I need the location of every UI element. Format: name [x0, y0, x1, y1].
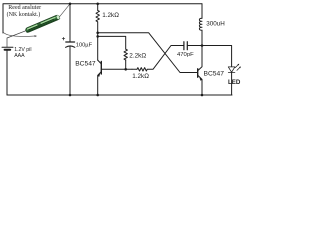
svg-text:470pF: 470pF — [177, 52, 194, 58]
wire top rail to R1 — [97, 4, 99, 10]
wire top rail — [70, 3, 202, 5]
arrowheads — [34, 35, 240, 81]
resistor R1 1.2k vertical — [96, 10, 99, 21]
transistor Q1 emitter — [98, 72, 102, 95]
wire C2 to node B — [188, 45, 202, 47]
junction dots — [69, 3, 204, 97]
wire leader arrow to reed switch — [3, 33, 36, 37]
capacitor C1 100uF — [66, 41, 75, 43]
labels — [14, 12, 241, 86]
wire A cross-couple to Q2 base — [98, 33, 198, 73]
leader arrowhead — [34, 35, 37, 37]
svg-text:100µF: 100µF — [76, 43, 93, 49]
wire R1 to Q1 collector — [97, 22, 99, 60]
wire C1 to bottom rail — [69, 46, 71, 95]
transistor Q1 collector — [98, 60, 102, 64]
wire battery to reed switch — [7, 31, 26, 47]
wire top rail corner to L1 — [201, 4, 203, 18]
wire R4 to C2 via diagonal — [132, 46, 183, 70]
resistor R3 2.2k vertical — [124, 49, 127, 60]
svg-text:BC547: BC547 — [204, 71, 225, 78]
inductor L1 300uH — [199, 18, 202, 30]
LED arrows — [237, 64, 239, 66]
svg-text:AAA: AAA — [14, 53, 25, 59]
wire R3 to wire C — [125, 60, 127, 69]
wire C Q1 base to R4 — [101, 68, 132, 70]
svg-text:(NK kontakt.): (NK kontakt.) — [7, 11, 41, 18]
svg-text:300uH: 300uH — [206, 20, 225, 27]
battery BT1 1.2V AAA — [2, 46, 13, 48]
LED D1 — [228, 67, 235, 73]
annotation box edge — [3, 4, 70, 33]
transistor Q1 BC547 base bar — [100, 62, 102, 75]
wire reed switch to top rail — [60, 4, 70, 17]
svg-text:LED: LED — [228, 79, 241, 86]
svg-text:BC547: BC547 — [75, 60, 96, 67]
svg-text:1.2kΩ: 1.2kΩ — [102, 12, 119, 19]
svg-text:1.2kΩ: 1.2kΩ — [132, 73, 149, 80]
capacitor C2 470pF — [183, 42, 185, 50]
transistor Q2 emitter — [198, 75, 202, 95]
reed switch S1 — [25, 14, 60, 33]
wire B to R3 — [98, 36, 126, 49]
wire node B to Q2 collector — [198, 46, 202, 71]
wire bottom rail — [7, 94, 232, 96]
Q1 emitter arrow — [97, 73, 100, 77]
wire L1 to node B — [201, 30, 203, 45]
Q2 emitter arrow — [199, 77, 202, 81]
svg-text:Reed ansluter: Reed ansluter — [8, 5, 41, 11]
wire battery minus to bottom rail — [6, 50, 8, 95]
wire node B to LED — [202, 46, 232, 67]
svg-text:2.2kΩ: 2.2kΩ — [129, 52, 146, 59]
wire top rail to C1 — [69, 4, 71, 42]
transistor Q2 BC547 base bar — [197, 69, 199, 77]
resistor R4 1.2k horizontal — [137, 68, 147, 71]
